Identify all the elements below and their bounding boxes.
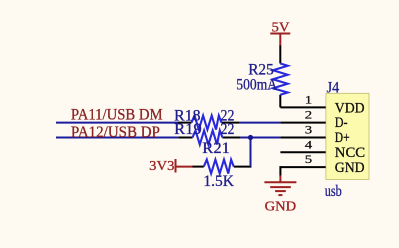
svg-text:VDD: VDD <box>335 100 365 116</box>
svg-text:22: 22 <box>221 121 235 138</box>
svg-text:PA12/USB DP: PA12/USB DP <box>71 124 160 141</box>
svg-text:5: 5 <box>305 154 313 166</box>
svg-text:D-: D- <box>335 115 348 131</box>
svg-text:1.5K: 1.5K <box>203 173 234 190</box>
svg-text:R19: R19 <box>174 121 202 138</box>
svg-text:R21: R21 <box>202 140 230 157</box>
svg-text:usb: usb <box>325 183 342 200</box>
svg-text:3: 3 <box>305 124 313 136</box>
svg-text:5V: 5V <box>272 20 290 35</box>
svg-text:PA11/USB DM: PA11/USB DM <box>71 106 163 123</box>
svg-text:D+: D+ <box>335 130 350 146</box>
svg-text:GND: GND <box>265 198 297 213</box>
svg-text:NCC: NCC <box>335 145 365 161</box>
svg-text:4: 4 <box>305 139 313 151</box>
svg-text:1: 1 <box>305 95 313 107</box>
svg-text:GND: GND <box>335 160 365 176</box>
svg-text:2: 2 <box>305 110 313 122</box>
svg-text:J4: J4 <box>327 79 340 96</box>
svg-text:500mA: 500mA <box>236 76 277 93</box>
svg-text:3V3: 3V3 <box>149 158 174 173</box>
